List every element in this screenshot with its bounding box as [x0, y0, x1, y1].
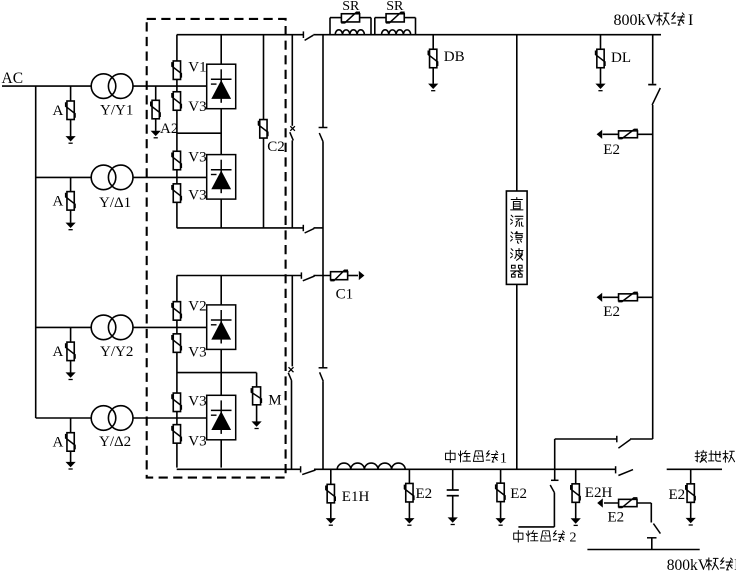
svg-text:V3: V3	[188, 345, 206, 361]
svg-text:V3: V3	[188, 433, 206, 449]
svg-text:800kV: 800kV	[667, 557, 710, 572]
svg-text:A: A	[53, 344, 64, 360]
svg-text:E2: E2	[510, 486, 527, 502]
svg-text:A2: A2	[160, 121, 178, 137]
svg-text:A: A	[53, 435, 64, 451]
svg-text:Y/Y2: Y/Y2	[100, 344, 133, 360]
svg-text:I: I	[688, 12, 693, 29]
svg-text:DB: DB	[444, 49, 465, 65]
svg-text:E2: E2	[608, 509, 625, 525]
svg-text:800kV: 800kV	[614, 12, 658, 29]
svg-text:A: A	[53, 103, 64, 119]
svg-text:V1: V1	[188, 60, 206, 76]
svg-text:Y/Y1: Y/Y1	[100, 102, 133, 118]
svg-text:C1: C1	[336, 286, 354, 302]
svg-text:A: A	[53, 194, 64, 210]
svg-text:2: 2	[570, 531, 577, 546]
svg-text:1: 1	[500, 450, 507, 466]
svg-text:E1H: E1H	[342, 489, 370, 505]
svg-text:E2: E2	[603, 142, 620, 158]
svg-text:V3: V3	[188, 393, 206, 409]
svg-text:Y/Δ1: Y/Δ1	[99, 195, 131, 211]
svg-text:AC: AC	[2, 70, 24, 87]
svg-text:SR: SR	[386, 0, 404, 14]
svg-text:E2: E2	[416, 486, 433, 502]
svg-text:M: M	[268, 392, 281, 408]
svg-text:E2H: E2H	[585, 485, 613, 501]
svg-text:C2: C2	[267, 139, 285, 155]
svg-text:E2: E2	[669, 487, 686, 503]
svg-text:Y/Δ2: Y/Δ2	[99, 434, 131, 450]
svg-text:V3: V3	[188, 187, 206, 203]
svg-text:SR: SR	[342, 0, 360, 14]
svg-text:V2: V2	[188, 299, 206, 315]
svg-text:V3: V3	[188, 149, 206, 165]
svg-text:V3: V3	[188, 99, 206, 115]
svg-text:DL: DL	[611, 50, 631, 66]
svg-text:E2: E2	[603, 304, 620, 320]
